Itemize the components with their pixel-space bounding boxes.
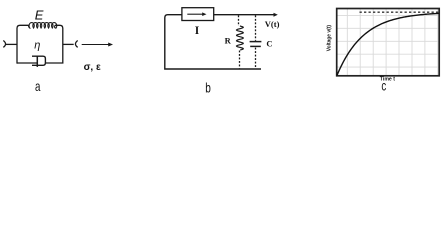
svg-text:η: η — [34, 39, 40, 51]
svg-text:E: E — [35, 8, 44, 23]
svg-text:b: b — [205, 80, 211, 96]
svg-text:R: R — [225, 36, 232, 46]
svg-text:σ, ε: σ, ε — [84, 62, 101, 73]
svg-text:I: I — [195, 25, 200, 37]
svg-text:a: a — [35, 80, 41, 95]
svg-text:c: c — [381, 79, 386, 94]
svg-text:C: C — [266, 39, 272, 49]
svg-text:Voltage v(t): Voltage v(t) — [326, 25, 332, 52]
svg-text:V(t): V(t) — [265, 19, 280, 29]
